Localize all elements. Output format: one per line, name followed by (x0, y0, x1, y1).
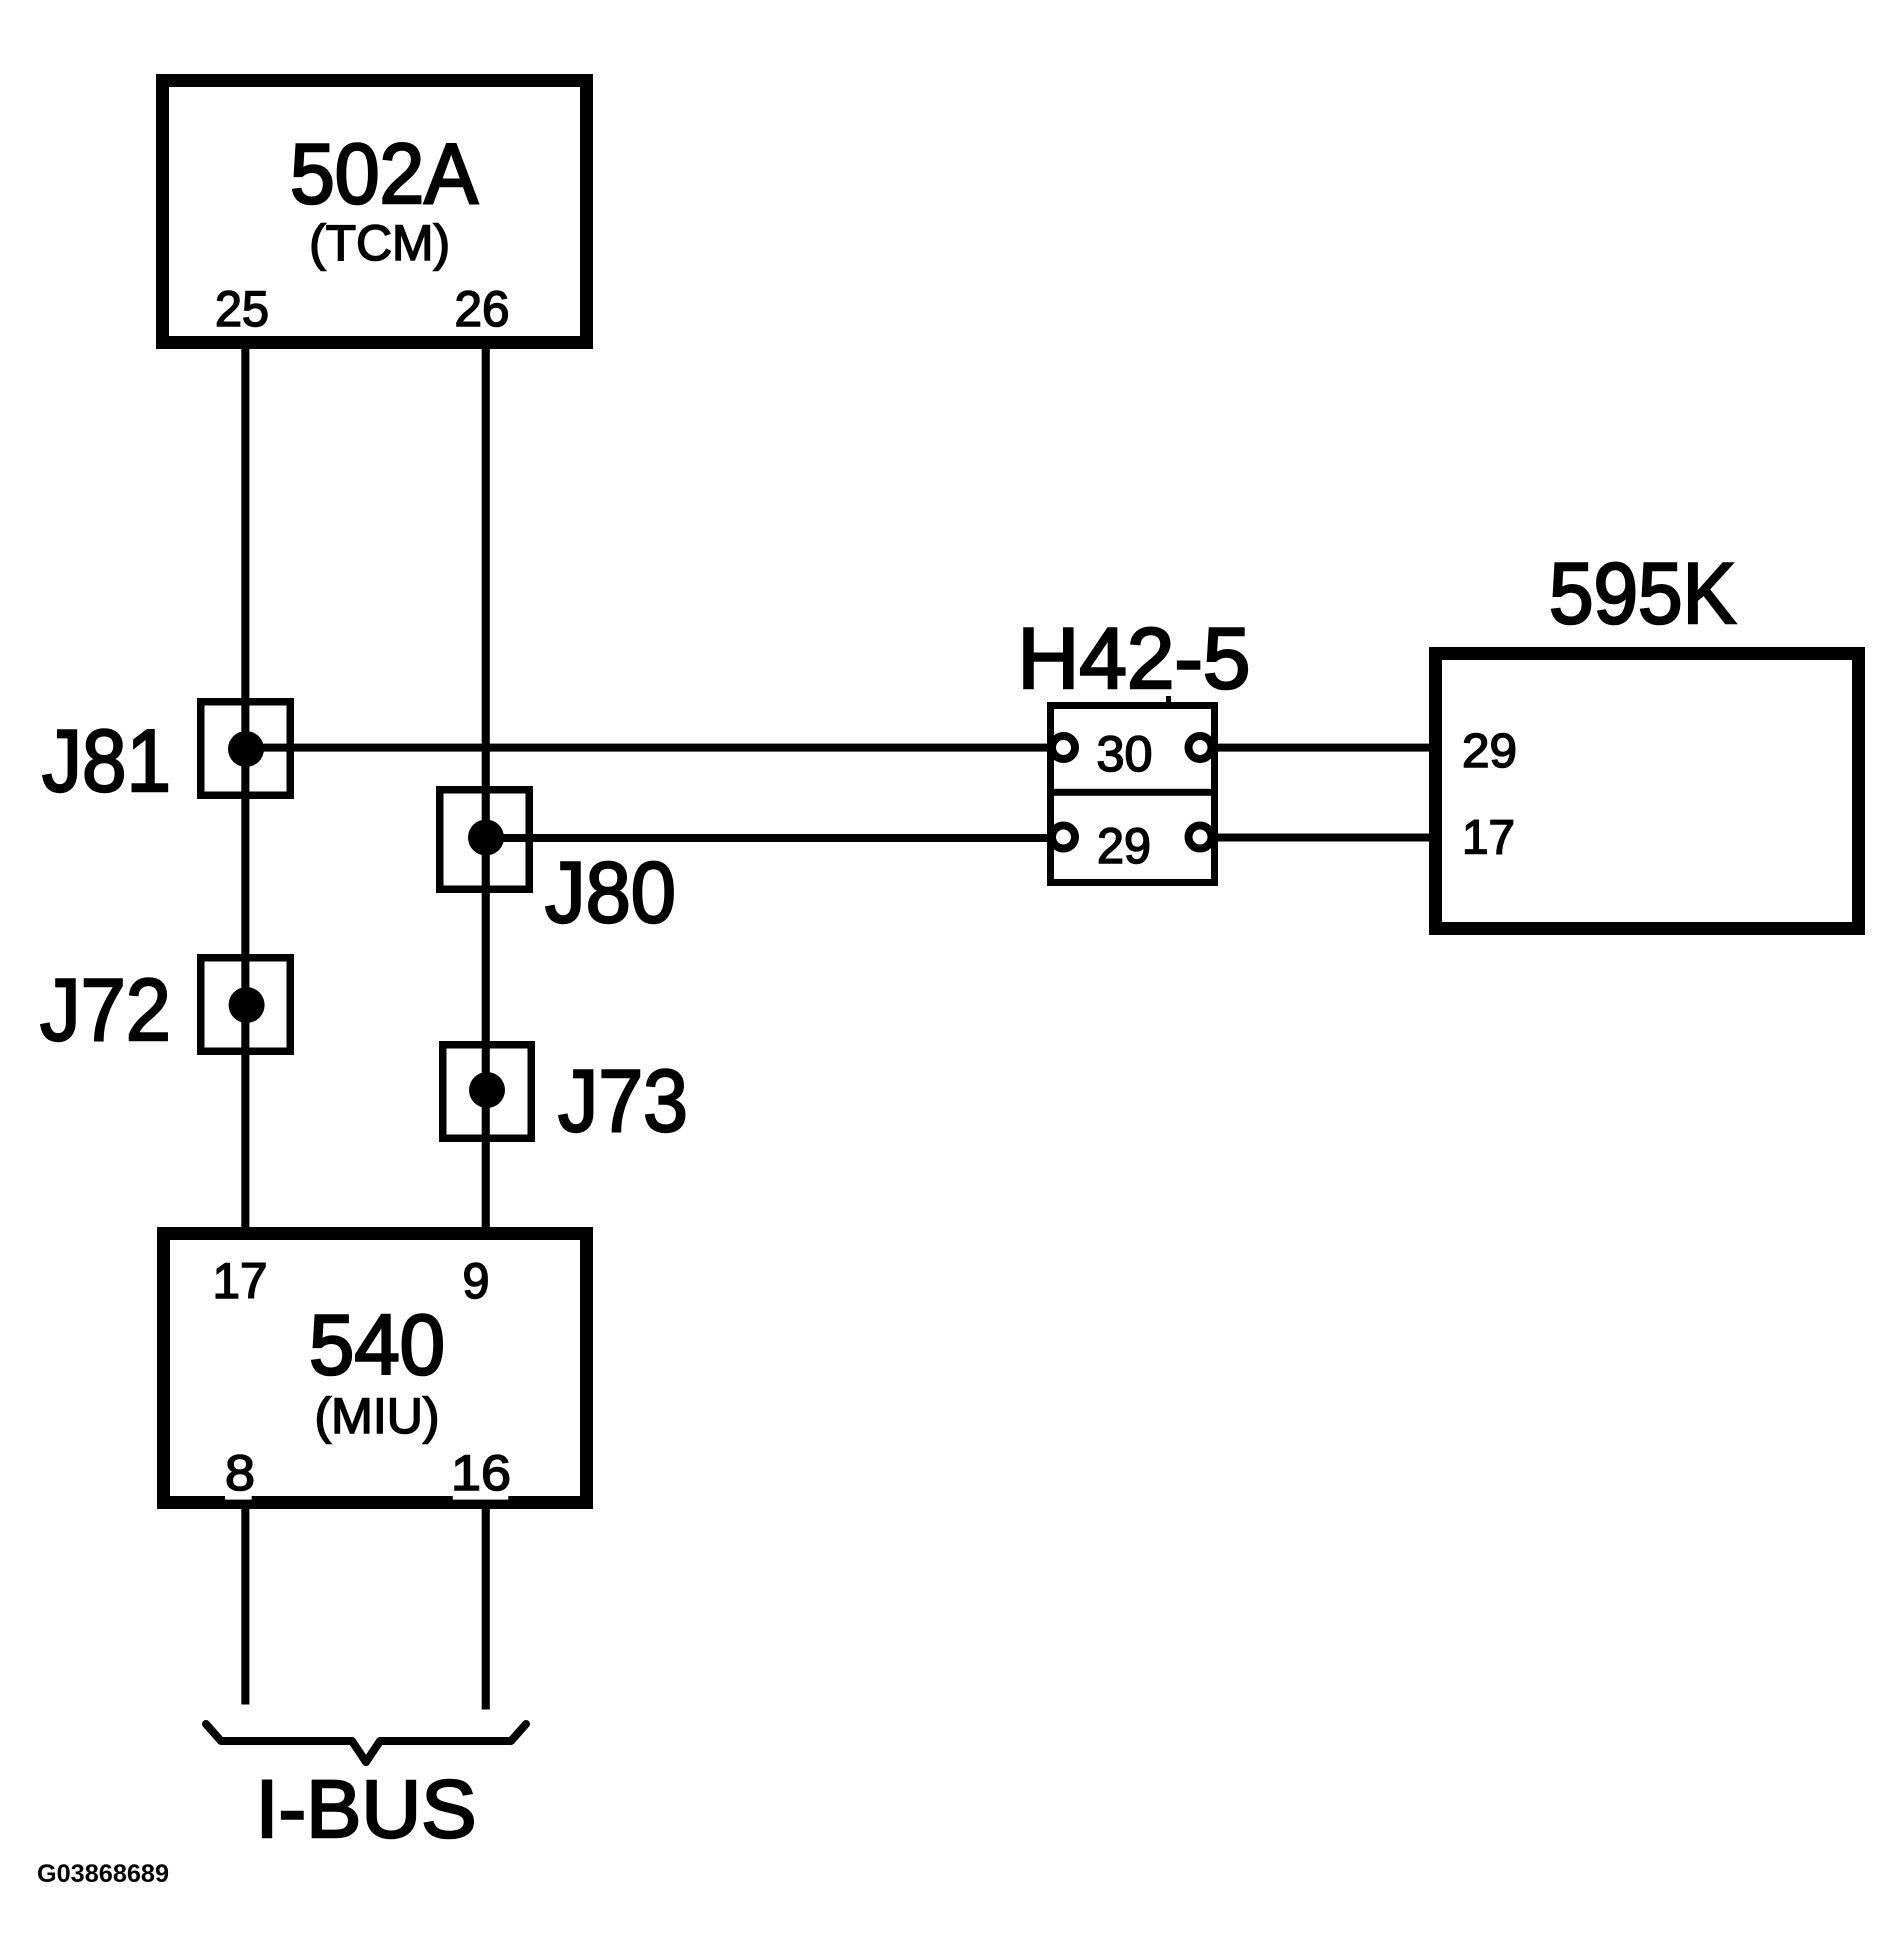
junction J72 dot (229, 987, 265, 1023)
svg-text:595K: 595K (1549, 546, 1736, 642)
svg-text:17: 17 (1462, 812, 1515, 865)
junction J73 dot (469, 1072, 505, 1108)
svg-text:(MIU): (MIU) (315, 1388, 440, 1444)
wire from 502A pin 25 down to 540 pin 17 (241, 340, 249, 1230)
pin notch at 540 pin 16 (453, 1494, 509, 1500)
svg-text:J72: J72 (40, 960, 171, 1059)
wire from junction J81 to connector H42-5 pin 30 (245, 744, 1053, 752)
svg-text:J73: J73 (558, 1051, 688, 1150)
junction J81 dot (228, 731, 264, 767)
box 595K (1436, 654, 1859, 929)
box 540 (MIU) (164, 1234, 587, 1503)
svg-text:26: 26 (455, 281, 510, 337)
connector H42-5 box (1051, 706, 1215, 883)
H42-5 divider (1047, 789, 1215, 796)
junction J80 box (440, 790, 530, 890)
H42-5 top tick (1166, 696, 1171, 702)
H42-5 pin 30 right socket (1189, 736, 1212, 759)
svg-text:29: 29 (1097, 818, 1151, 874)
H42-5 pin 29 left socket (1052, 826, 1075, 849)
svg-text:16: 16 (451, 1445, 511, 1501)
svg-text:8: 8 (225, 1445, 255, 1501)
svg-text:29: 29 (1462, 725, 1517, 778)
svg-text:30: 30 (1097, 726, 1153, 782)
svg-text:540: 540 (309, 1298, 445, 1393)
junction J80 dot (468, 820, 504, 856)
H42-5 pin 30 left socket (1052, 736, 1075, 759)
svg-text:17: 17 (213, 1253, 268, 1309)
svg-text:G03868689: G03868689 (37, 1860, 169, 1888)
wire from H42-5 pin 30 to 595K pin 29 (1205, 744, 1431, 752)
svg-text:J81: J81 (42, 711, 171, 810)
wire from 540 pin 8 down to I-BUS (241, 1494, 249, 1705)
svg-text:J80: J80 (545, 845, 676, 941)
svg-text:H42-5: H42-5 (1018, 611, 1251, 707)
wire from 502A pin 26 down to 540 pin 9 (482, 340, 490, 1230)
pin notch at 540 pin 8 (225, 1494, 252, 1500)
wire from 540 pin 16 down to I-BUS (482, 1494, 490, 1710)
wire from H42-5 pin 29 to 595K pin 17 (1205, 834, 1431, 842)
svg-text:502A: 502A (290, 127, 478, 222)
I-BUS brace (206, 1724, 526, 1762)
junction J72 box (201, 958, 291, 1052)
svg-text:I-BUS: I-BUS (256, 1764, 477, 1855)
svg-text:25: 25 (215, 281, 269, 337)
wire from junction J80 to connector H42-5 pin 29 (486, 834, 1053, 842)
junction J73 box (443, 1045, 532, 1139)
svg-text:9: 9 (463, 1253, 490, 1309)
svg-text:(TCM): (TCM) (309, 215, 450, 271)
junction J81 box (201, 702, 291, 796)
H42-5 pin 29 right socket (1189, 826, 1212, 849)
box 502A (TCM) (163, 81, 587, 343)
